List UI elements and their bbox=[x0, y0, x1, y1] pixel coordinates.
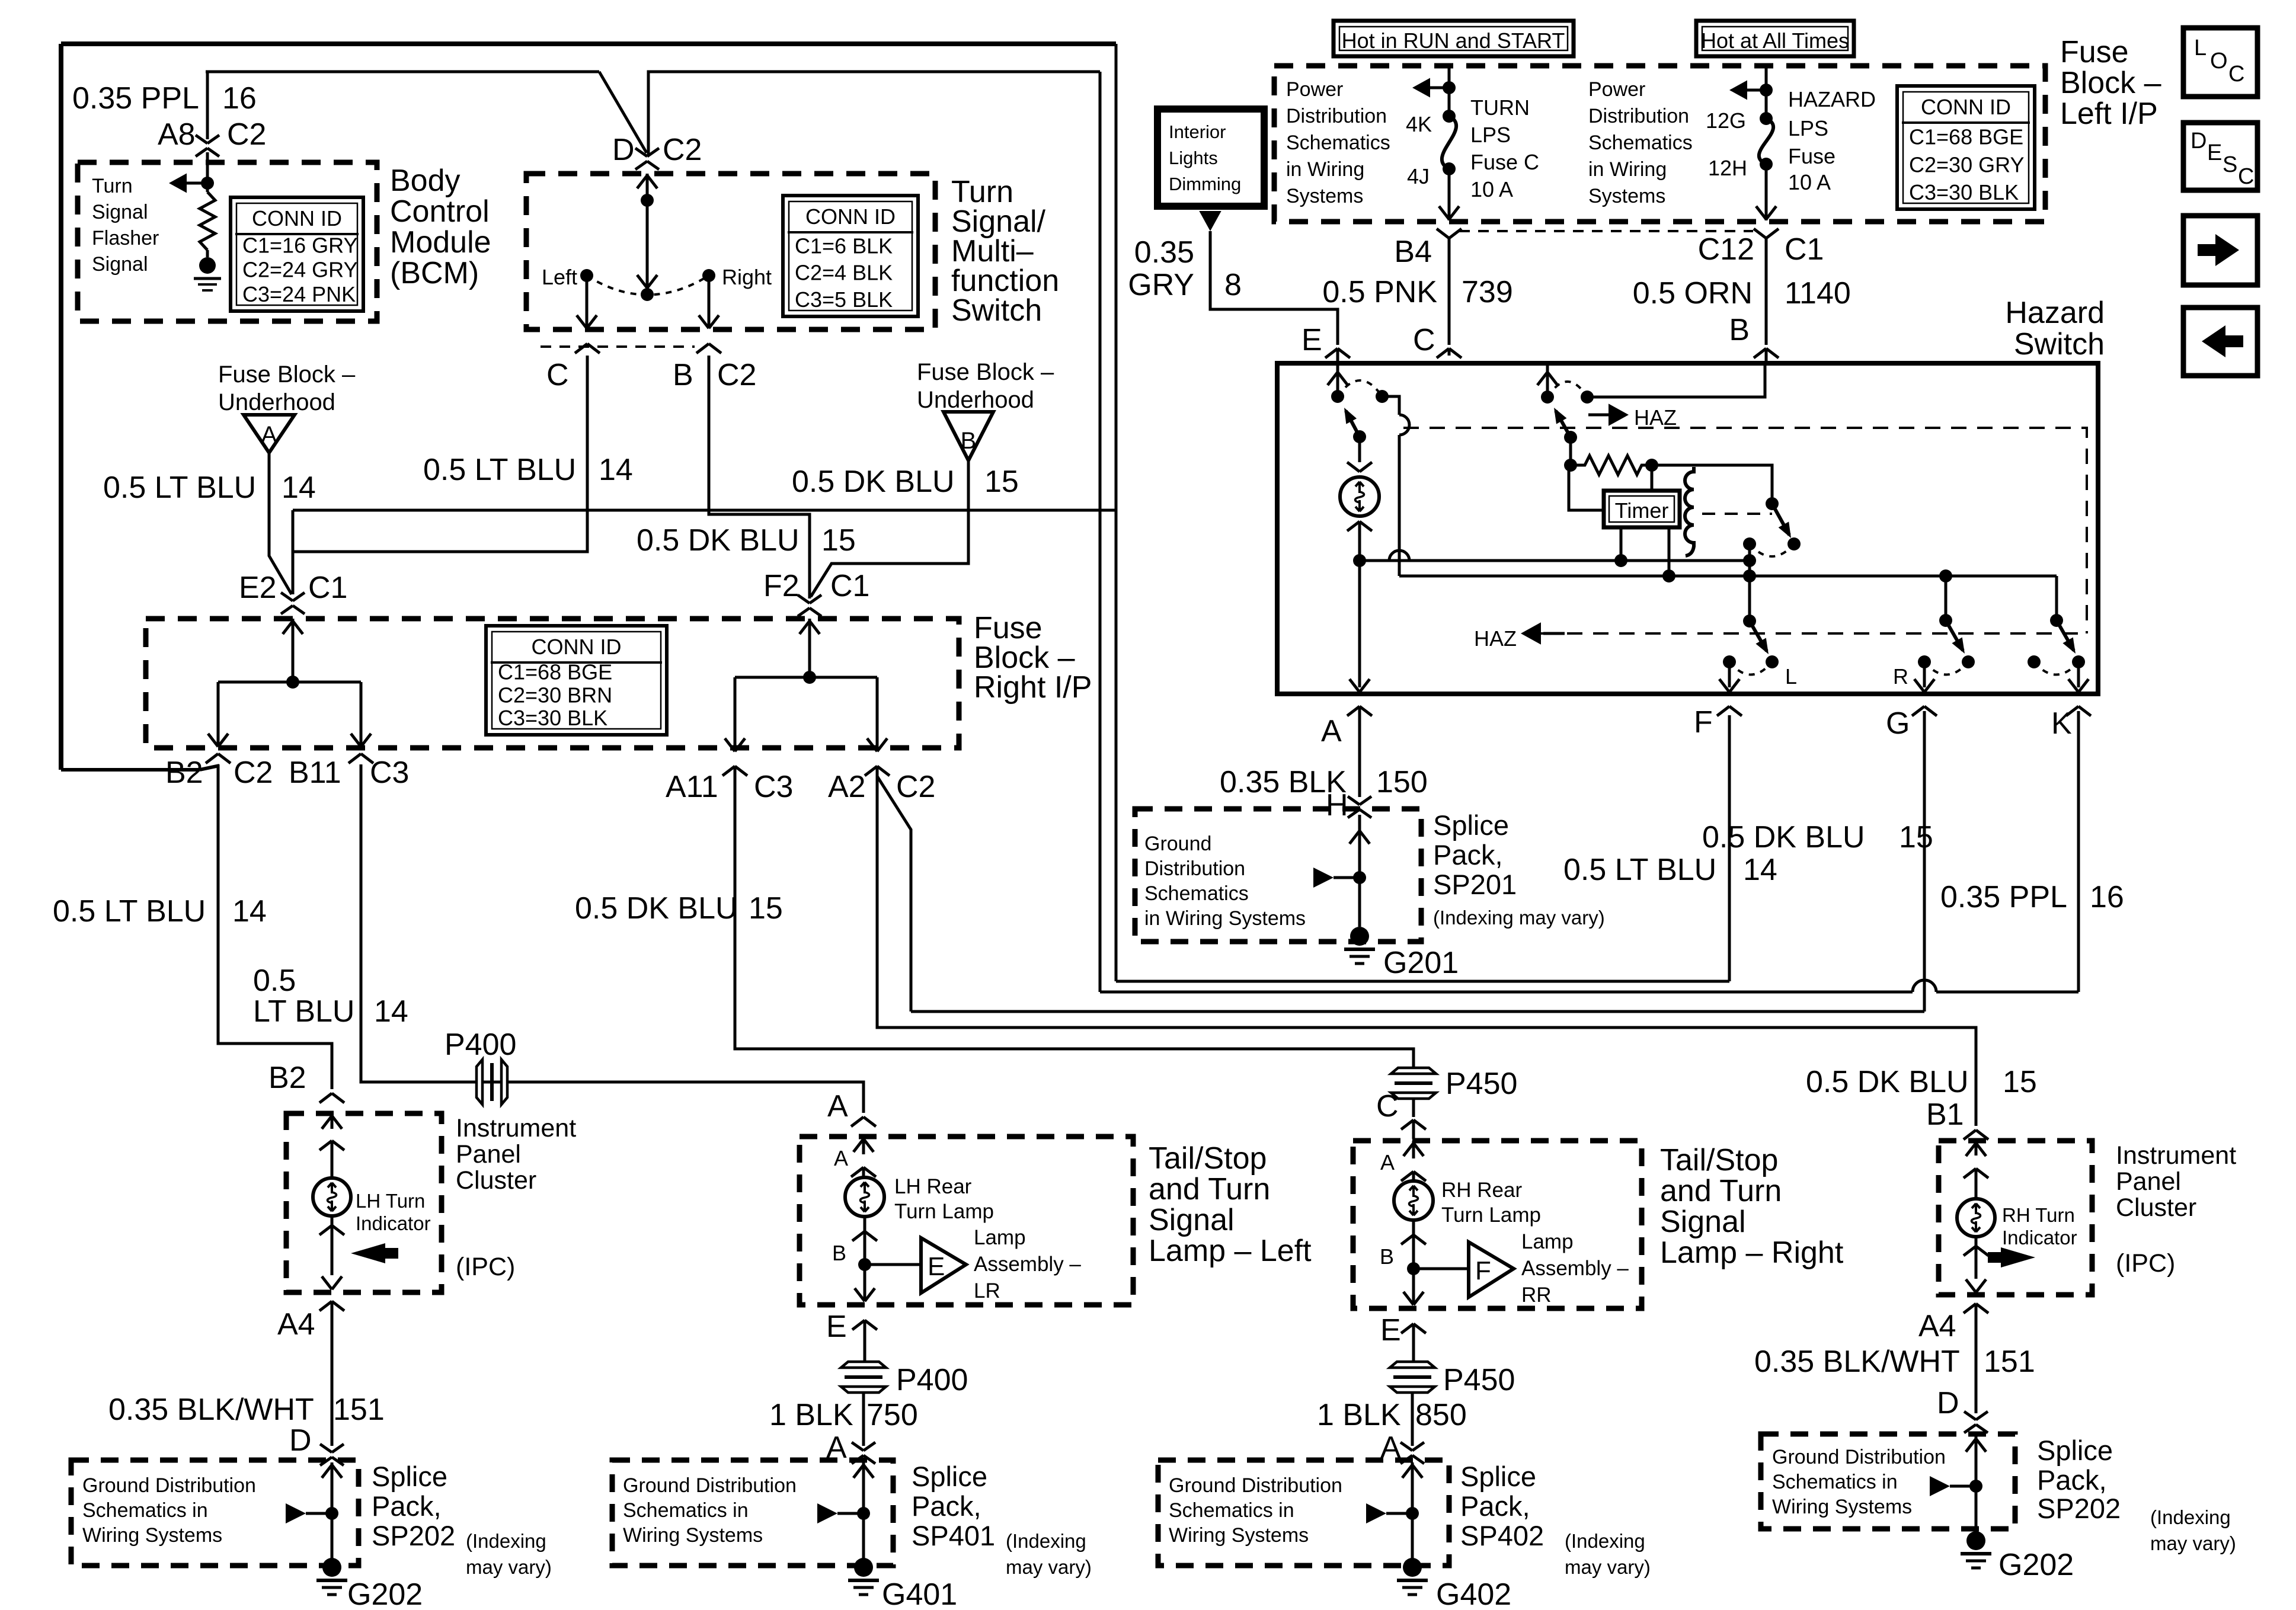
label Fuse Block Left IP bbox=[2060, 35, 2161, 131]
label Body Control Module (BCM) bbox=[390, 164, 491, 290]
label H bbox=[1326, 788, 1348, 822]
svg-text:(Indexing: (Indexing bbox=[2150, 1506, 2231, 1528]
wire B11 to P400 line bbox=[361, 764, 864, 1113]
fuse block E2 entry arrow bbox=[283, 619, 303, 682]
svg-text:Ground Distribution: Ground Distribution bbox=[623, 1474, 797, 1497]
svg-text:C2=4 BLK: C2=4 BLK bbox=[795, 261, 893, 285]
svg-text:0.35 PPL: 0.35 PPL bbox=[72, 81, 199, 116]
label 4K bbox=[1406, 112, 1432, 136]
hazard K output bbox=[2068, 662, 2089, 692]
conn table fuse block right bbox=[486, 626, 667, 735]
svg-text:0.35 BLK/WHT: 0.35 BLK/WHT bbox=[1754, 1345, 1960, 1379]
connector A8 C2 bbox=[196, 135, 219, 156]
svg-text:H: H bbox=[1326, 788, 1348, 822]
svg-text:C2=30 GRY: C2=30 GRY bbox=[1909, 152, 2024, 177]
fuse block B2 drop bbox=[208, 682, 228, 747]
svg-text:A: A bbox=[1321, 714, 1342, 748]
svg-text:Pack,: Pack, bbox=[912, 1490, 981, 1522]
LH lamp junction dot bbox=[858, 1258, 871, 1271]
hazard K blade bbox=[2057, 620, 2076, 654]
label E (hazard) bbox=[1302, 323, 1322, 357]
hazard bus2 bbox=[1399, 569, 2057, 582]
label Indexing may vary right bbox=[2150, 1506, 2236, 1554]
svg-text:15: 15 bbox=[2003, 1065, 2037, 1099]
label G402 bbox=[1436, 1577, 1511, 1610]
TS switch input arrow bbox=[637, 174, 657, 207]
hazard relay blade bbox=[1766, 497, 1791, 538]
label E2 bbox=[239, 571, 277, 605]
label A (above G402) bbox=[1380, 1430, 1401, 1465]
RH lamp inner connector bbox=[1401, 1172, 1426, 1182]
svg-text:Systems: Systems bbox=[1588, 185, 1665, 207]
svg-text:E: E bbox=[2207, 140, 2222, 165]
svg-text:Assembly –: Assembly – bbox=[1521, 1257, 1629, 1280]
fuse block F2 entry arrow bbox=[800, 619, 820, 677]
ground G402 bbox=[1397, 1558, 1428, 1595]
svg-text:Schematics in: Schematics in bbox=[623, 1499, 749, 1522]
svg-text:C1: C1 bbox=[308, 571, 347, 605]
RH lamp B connector bbox=[1401, 1221, 1426, 1305]
connector P400 inline bbox=[477, 1060, 507, 1105]
connector F2 C1 bbox=[798, 595, 821, 616]
label 0.5 DK BLU 15 (A2 wire) bbox=[575, 891, 783, 926]
label B1 bbox=[1926, 1097, 1964, 1132]
svg-text:15: 15 bbox=[984, 465, 1019, 499]
ground G201 bbox=[1344, 927, 1375, 964]
wire BCM A8 riser bbox=[206, 72, 209, 139]
label C1 (E2) bbox=[308, 571, 347, 605]
hazard bus1 hop bbox=[1389, 550, 1409, 561]
label TURN LPS Fuse C 10 A bbox=[1470, 95, 1539, 201]
svg-text:0.5 DK BLU: 0.5 DK BLU bbox=[575, 891, 738, 926]
label 0.5 PNK bbox=[1322, 275, 1437, 309]
svg-text:G202: G202 bbox=[347, 1577, 423, 1610]
label P450 lower bbox=[1443, 1363, 1515, 1397]
svg-text:Distribution: Distribution bbox=[1588, 105, 1689, 127]
label Ground Distribution left bbox=[82, 1474, 256, 1547]
label P400 (inline) bbox=[445, 1028, 516, 1062]
label RH Turn Indicator bbox=[2002, 1204, 2077, 1249]
hazard timer left pin bbox=[1620, 527, 1623, 561]
svg-text:F: F bbox=[1475, 1256, 1491, 1285]
svg-text:C: C bbox=[2238, 164, 2254, 189]
IPC left entry arrow bbox=[322, 1113, 342, 1129]
wire E2 riser upper bbox=[292, 510, 295, 594]
label Fuse Block Underhood (left) bbox=[218, 361, 356, 415]
component box Fuse Block Right IP dashed bbox=[146, 619, 959, 748]
svg-text:Wiring Systems: Wiring Systems bbox=[1772, 1496, 1912, 1518]
label 0.5 ORN bbox=[1633, 276, 1753, 311]
wire F riser bbox=[1728, 715, 1731, 981]
svg-text:CONN ID: CONN ID bbox=[805, 204, 896, 229]
svg-text:Schematics in: Schematics in bbox=[82, 1499, 208, 1522]
svg-text:15: 15 bbox=[749, 891, 783, 926]
svg-text:739: 739 bbox=[1462, 275, 1513, 309]
svg-text:P450: P450 bbox=[1446, 1067, 1517, 1101]
hazard L contacts bbox=[1723, 655, 1779, 675]
svg-text:151: 151 bbox=[333, 1393, 385, 1427]
hazard E drop hop and run bbox=[1399, 415, 1409, 576]
svg-text:Cluster: Cluster bbox=[456, 1166, 536, 1195]
svg-text:Switch: Switch bbox=[2014, 327, 2105, 361]
connector E below LH lamp bbox=[852, 1320, 877, 1361]
wire TS C output bbox=[293, 356, 587, 594]
connector G hazard out bbox=[1912, 706, 1937, 716]
hazard E arm bbox=[1328, 363, 1348, 403]
G401 entry arrow bbox=[853, 1462, 874, 1558]
svg-text:Splice: Splice bbox=[1433, 809, 1509, 841]
BCM internal arrow bbox=[169, 174, 214, 193]
hazard bulb lower connector bbox=[1347, 521, 1372, 561]
hazard B blade bbox=[1554, 408, 1577, 444]
svg-text:150: 150 bbox=[1376, 765, 1428, 799]
wire HAZARD fuse feed bbox=[1729, 66, 1773, 119]
label LH Turn Indicator bbox=[356, 1190, 431, 1234]
label 0.35 BLK WHT 151 right bbox=[1754, 1345, 2035, 1379]
label R bbox=[1893, 664, 1908, 689]
svg-text:0.5 DK BLU: 0.5 DK BLU bbox=[1702, 820, 1865, 854]
svg-text:SP202: SP202 bbox=[2037, 1493, 2121, 1524]
svg-text:A8: A8 bbox=[158, 117, 196, 152]
label K (hazard out) bbox=[2051, 706, 2072, 741]
svg-text:Indicator: Indicator bbox=[356, 1212, 431, 1234]
label 0.5 DK BLU 15 (F2 wire) bbox=[637, 523, 856, 558]
button right arrow bbox=[2183, 216, 2257, 285]
hazard R contacts bbox=[1918, 655, 1975, 675]
svg-text:Instrument: Instrument bbox=[2116, 1141, 2236, 1170]
svg-text:Ground Distribution: Ground Distribution bbox=[1169, 1474, 1342, 1497]
label Splice Pack SP401 bbox=[912, 1461, 995, 1551]
component box Interior Lights Dimming bbox=[1157, 109, 1264, 206]
label Indexing may vary G402 bbox=[1565, 1530, 1651, 1578]
hazard A output bbox=[1350, 561, 1370, 692]
svg-text:Schematics: Schematics bbox=[1286, 132, 1390, 154]
svg-text:Hot in RUN and START: Hot in RUN and START bbox=[1342, 28, 1565, 53]
svg-text:14: 14 bbox=[599, 453, 633, 487]
svg-text:0.5: 0.5 bbox=[253, 964, 296, 998]
hazard G output bbox=[1914, 662, 1934, 692]
SP201 entry arrow bbox=[1350, 828, 1370, 927]
label 0.35 PPL 16 (K wire) bbox=[1940, 880, 2124, 914]
wire C2 diagonal branch bbox=[877, 776, 911, 1012]
LH lamp B connector bbox=[852, 1217, 877, 1301]
svg-text:P400: P400 bbox=[445, 1028, 516, 1062]
svg-text:C: C bbox=[1376, 1089, 1399, 1124]
hazard R blade bbox=[1946, 620, 1965, 654]
wire G line bbox=[911, 1010, 1924, 1013]
svg-text:C1=6 BLK: C1=6 BLK bbox=[795, 233, 893, 258]
svg-text:Fuse C: Fuse C bbox=[1470, 150, 1539, 174]
label C (RH lamp) bbox=[1376, 1089, 1399, 1124]
wire F line bbox=[1116, 980, 1729, 983]
svg-text:C2: C2 bbox=[717, 358, 756, 392]
label B4 bbox=[1394, 235, 1432, 269]
connector P450 inline bbox=[1391, 1068, 1436, 1099]
svg-text:Pack,: Pack, bbox=[372, 1490, 442, 1522]
svg-text:Splice: Splice bbox=[372, 1461, 447, 1492]
svg-text:F2: F2 bbox=[763, 569, 800, 603]
svg-text:0.5 PNK: 0.5 PNK bbox=[1322, 275, 1437, 309]
RH lamp driver wire bbox=[1414, 1267, 1469, 1270]
wire HAZARD fuse out bbox=[1756, 164, 1776, 220]
svg-text:Turn: Turn bbox=[92, 175, 133, 197]
component Timer bbox=[1604, 491, 1680, 527]
svg-text:0.5 LT BLU: 0.5 LT BLU bbox=[103, 470, 256, 505]
label A (hazard out) bbox=[1321, 714, 1342, 748]
svg-text:B11: B11 bbox=[289, 756, 341, 790]
svg-text:Left: Left bbox=[542, 265, 577, 289]
svg-text:0.35 BLK/WHT: 0.35 BLK/WHT bbox=[108, 1393, 314, 1427]
svg-text:0.5 LT BLU: 0.5 LT BLU bbox=[53, 894, 206, 929]
IPC left inner connector bbox=[319, 1141, 344, 1178]
svg-text:Ground Distribution: Ground Distribution bbox=[1772, 1446, 1946, 1468]
svg-text:0.35 PPL: 0.35 PPL bbox=[1940, 880, 2067, 914]
svg-text:and Turn: and Turn bbox=[1149, 1172, 1270, 1206]
connector C (TS out) bbox=[546, 344, 600, 392]
wire y861 LT BLU horizontal bbox=[293, 509, 1116, 512]
svg-text:RR: RR bbox=[1521, 1283, 1552, 1307]
TS pivot dot bbox=[641, 288, 654, 301]
RH lamp junction dot bbox=[1407, 1262, 1420, 1275]
splice SP401 bbox=[817, 1503, 870, 1523]
splice SP402 bbox=[1366, 1503, 1419, 1523]
svg-text:Lamp – Right: Lamp – Right bbox=[1660, 1235, 1844, 1270]
connector A LH lamp bbox=[851, 1117, 876, 1126]
svg-text:A: A bbox=[827, 1089, 848, 1124]
connector B2 into IPC bbox=[319, 1093, 344, 1103]
hazard relay contacts bbox=[1743, 537, 1801, 556]
label Instrument Panel Cluster IPC left bbox=[456, 1114, 576, 1281]
label Turn Signal Multi-function Switch bbox=[951, 175, 1059, 328]
svg-text:Power: Power bbox=[1588, 78, 1645, 101]
wire LT BLU border riser x1883 bbox=[1115, 44, 1118, 981]
hazard E contact arc bbox=[1338, 380, 1389, 403]
svg-text:Panel: Panel bbox=[456, 1140, 521, 1169]
fuse block A11 drop bbox=[725, 677, 745, 751]
label Hazard Switch bbox=[2005, 296, 2105, 361]
svg-text:K: K bbox=[2051, 706, 2072, 741]
hazard F output bbox=[1719, 662, 1739, 692]
svg-text:P450: P450 bbox=[1443, 1363, 1515, 1397]
connector E below RH lamp bbox=[1401, 1324, 1426, 1361]
svg-text:4K: 4K bbox=[1406, 112, 1432, 136]
svg-text:A11: A11 bbox=[666, 770, 718, 804]
svg-text:Turn Lamp: Turn Lamp bbox=[1441, 1204, 1541, 1227]
svg-text:C3: C3 bbox=[754, 770, 793, 804]
fuse block right branch bbox=[735, 676, 877, 679]
label HAZARD LPS Fuse 10 A bbox=[1788, 87, 1876, 194]
button LOC bbox=[2183, 28, 2257, 97]
svg-text:G402: G402 bbox=[1436, 1577, 1511, 1610]
svg-text:Fuse Block –: Fuse Block – bbox=[917, 359, 1054, 385]
svg-text:Underhood: Underhood bbox=[917, 387, 1034, 413]
callout box Hot in RUN and START bbox=[1334, 21, 1574, 56]
connector F hazard out bbox=[1717, 706, 1742, 716]
connector A11 C3 bbox=[666, 766, 793, 804]
svg-text:14: 14 bbox=[282, 470, 316, 505]
wire A11 to P450 line bbox=[735, 766, 1414, 1068]
wire bottom-left to B2 diagonal bbox=[61, 766, 219, 770]
label F2 bbox=[763, 569, 800, 603]
svg-text:LPS: LPS bbox=[1470, 123, 1511, 147]
label C12 bbox=[1698, 232, 1754, 267]
svg-text:G202: G202 bbox=[1998, 1548, 2074, 1582]
label C (hazard) bbox=[1413, 323, 1435, 357]
wire A2 to B1 line bbox=[877, 766, 1976, 1126]
label 0.35 GRY stacked bbox=[1128, 235, 1194, 302]
svg-text:Turn Lamp: Turn Lamp bbox=[894, 1200, 994, 1223]
svg-text:Signal: Signal bbox=[92, 253, 148, 276]
hazard linkage lower dashed bbox=[1541, 632, 2086, 635]
component box IPC right dashed bbox=[1939, 1141, 2092, 1295]
hazard timer left wire bbox=[1569, 468, 1604, 510]
ground BCM internal bbox=[194, 250, 221, 290]
label E (below LH lamp) bbox=[826, 1310, 847, 1344]
svg-text:16: 16 bbox=[2090, 880, 2124, 914]
svg-text:Schematics: Schematics bbox=[1588, 132, 1693, 154]
label G201 bbox=[1383, 946, 1459, 980]
label 0.5 DK BLU 15 (B wire) bbox=[792, 465, 1019, 499]
svg-text:E: E bbox=[928, 1252, 945, 1281]
svg-text:(Indexing: (Indexing bbox=[1565, 1530, 1645, 1552]
IPC left bulb lower bbox=[319, 1216, 344, 1289]
hazard K contacts bbox=[2028, 655, 2085, 675]
svg-text:B2: B2 bbox=[268, 1061, 306, 1095]
fuse HAZARD LPS bbox=[1759, 112, 1773, 171]
left ground entry arrow bbox=[322, 1462, 342, 1558]
svg-text:C3=5 BLK: C3=5 BLK bbox=[795, 287, 893, 312]
svg-text:B2: B2 bbox=[165, 756, 203, 790]
svg-text:L: L bbox=[1785, 664, 1797, 689]
label 16 (BCM wire) bbox=[222, 81, 257, 116]
RH lamp driver triangle F bbox=[1469, 1242, 1514, 1297]
svg-text:D: D bbox=[612, 133, 635, 167]
label Tail Stop and Turn Signal Lamp Left bbox=[1149, 1141, 1312, 1268]
svg-text:C3: C3 bbox=[370, 756, 409, 790]
svg-text:1140: 1140 bbox=[1785, 276, 1851, 311]
svg-text:Schematics: Schematics bbox=[1144, 882, 1249, 905]
connector A4 right bbox=[1964, 1304, 1988, 1413]
TS switch common arm bbox=[637, 200, 657, 288]
label 12G bbox=[1706, 108, 1746, 133]
svg-text:Flasher: Flasher bbox=[92, 227, 159, 249]
wire resistor to relay bbox=[1652, 465, 1772, 500]
svg-text:Assembly –: Assembly – bbox=[974, 1253, 1081, 1276]
svg-text:C3=30 BLK: C3=30 BLK bbox=[1909, 180, 2019, 204]
svg-text:Schematics in: Schematics in bbox=[1169, 1499, 1294, 1522]
label 0.35 BLK 150 bbox=[1220, 765, 1428, 799]
svg-text:0.5 DK BLU: 0.5 DK BLU bbox=[792, 465, 955, 499]
fuse block left branch bbox=[218, 681, 361, 684]
connector B4 bbox=[1437, 229, 1462, 345]
label Power Distribution Schematics left bbox=[1286, 78, 1390, 207]
svg-text:Splice: Splice bbox=[1460, 1461, 1536, 1492]
svg-text:8: 8 bbox=[1224, 268, 1242, 302]
svg-text:SP402: SP402 bbox=[1460, 1520, 1544, 1551]
right ground entry arrow bbox=[1966, 1436, 1986, 1532]
label Splice Pack SP202 left bbox=[372, 1461, 455, 1551]
label Ground Distribution G401 bbox=[623, 1474, 797, 1547]
svg-text:Module: Module bbox=[390, 225, 491, 260]
label Indexing may vary SP201 bbox=[1433, 907, 1605, 929]
hazard timer top pin bbox=[1651, 465, 1654, 491]
svg-text:Interior: Interior bbox=[1169, 121, 1226, 142]
svg-text:in Wiring: in Wiring bbox=[1588, 158, 1667, 181]
fuse TURN LPS Fuse C bbox=[1442, 110, 1456, 175]
svg-text:LT BLU: LT BLU bbox=[253, 994, 355, 1029]
svg-text:SP201: SP201 bbox=[1433, 869, 1517, 900]
connector H bbox=[1348, 796, 1371, 828]
svg-text:Wiring Systems: Wiring Systems bbox=[82, 1524, 222, 1547]
hazard B pivot post bbox=[1564, 437, 1577, 472]
svg-text:151: 151 bbox=[1984, 1345, 2035, 1379]
svg-text:(IPC): (IPC) bbox=[456, 1253, 515, 1281]
svg-text:C: C bbox=[546, 358, 569, 392]
label 0.5 LT BLU 14 (F wire) bbox=[1563, 853, 1777, 887]
svg-text:Ground: Ground bbox=[1144, 833, 1211, 855]
hazard dashed linkage bbox=[1403, 428, 2087, 633]
label 739 bbox=[1462, 275, 1513, 309]
svg-text:S: S bbox=[2223, 152, 2237, 177]
label 12H bbox=[1708, 156, 1747, 180]
label Splice Pack SP402 bbox=[1460, 1461, 1544, 1551]
svg-text:Ground Distribution: Ground Distribution bbox=[82, 1474, 256, 1497]
wire y121 right segment bbox=[648, 72, 1100, 155]
IPC right inner connector bbox=[1964, 1169, 1988, 1198]
hazard R switch feed bbox=[1939, 576, 1952, 627]
svg-text:C1: C1 bbox=[830, 569, 869, 603]
svg-text:Panel: Panel bbox=[2116, 1167, 2181, 1196]
svg-text:Pack,: Pack, bbox=[2037, 1464, 2107, 1496]
resistor hazard bbox=[1571, 456, 1658, 475]
label Splice Pack SP202 right bbox=[2037, 1435, 2121, 1524]
label D (left) bbox=[289, 1423, 312, 1458]
svg-text:CONN ID: CONN ID bbox=[532, 635, 622, 659]
button DESC bbox=[2183, 123, 2257, 190]
BCM wire into flasher bbox=[206, 152, 209, 192]
label A inner (LH lamp) bbox=[834, 1146, 848, 1170]
label Fuse Block Right IP bbox=[974, 611, 1092, 705]
label LH Rear Turn Lamp bbox=[894, 1175, 994, 1223]
svg-text:Control: Control bbox=[390, 194, 490, 229]
svg-text:G201: G201 bbox=[1383, 946, 1459, 980]
label 0.5 LT BLU 14 (top loop) bbox=[423, 453, 633, 487]
svg-text:Body: Body bbox=[390, 164, 461, 198]
svg-text:12H: 12H bbox=[1708, 156, 1747, 180]
svg-text:Tail/Stop: Tail/Stop bbox=[1660, 1143, 1778, 1177]
svg-text:LH Turn: LH Turn bbox=[356, 1190, 425, 1212]
svg-text:0.5 ORN: 0.5 ORN bbox=[1633, 276, 1753, 311]
label P450 (inline) bbox=[1446, 1067, 1517, 1101]
svg-text:Pack,: Pack, bbox=[1460, 1490, 1530, 1522]
connector B1 into IPC bbox=[1964, 1130, 1988, 1140]
component box Body Control Module dashed bbox=[78, 162, 377, 321]
label Instrument Panel Cluster IPC right bbox=[2116, 1141, 2236, 1278]
connector D left bbox=[320, 1444, 344, 1465]
svg-text:C2: C2 bbox=[663, 133, 702, 167]
svg-text:G: G bbox=[1886, 706, 1910, 741]
svg-text:Pack,: Pack, bbox=[1433, 839, 1503, 870]
wire dimming to E bbox=[1210, 231, 1338, 345]
label B inner (RH lamp) bbox=[1380, 1244, 1394, 1269]
svg-text:P400: P400 bbox=[896, 1363, 968, 1397]
component box Ground Distribution SP201 dashed bbox=[1135, 809, 1421, 942]
svg-text:LH Rear: LH Rear bbox=[894, 1175, 972, 1198]
label G202 left bbox=[347, 1577, 423, 1610]
svg-text:10 A: 10 A bbox=[1788, 170, 1831, 194]
svg-text:E2: E2 bbox=[239, 571, 277, 605]
connector A above G401 bbox=[852, 1394, 875, 1464]
